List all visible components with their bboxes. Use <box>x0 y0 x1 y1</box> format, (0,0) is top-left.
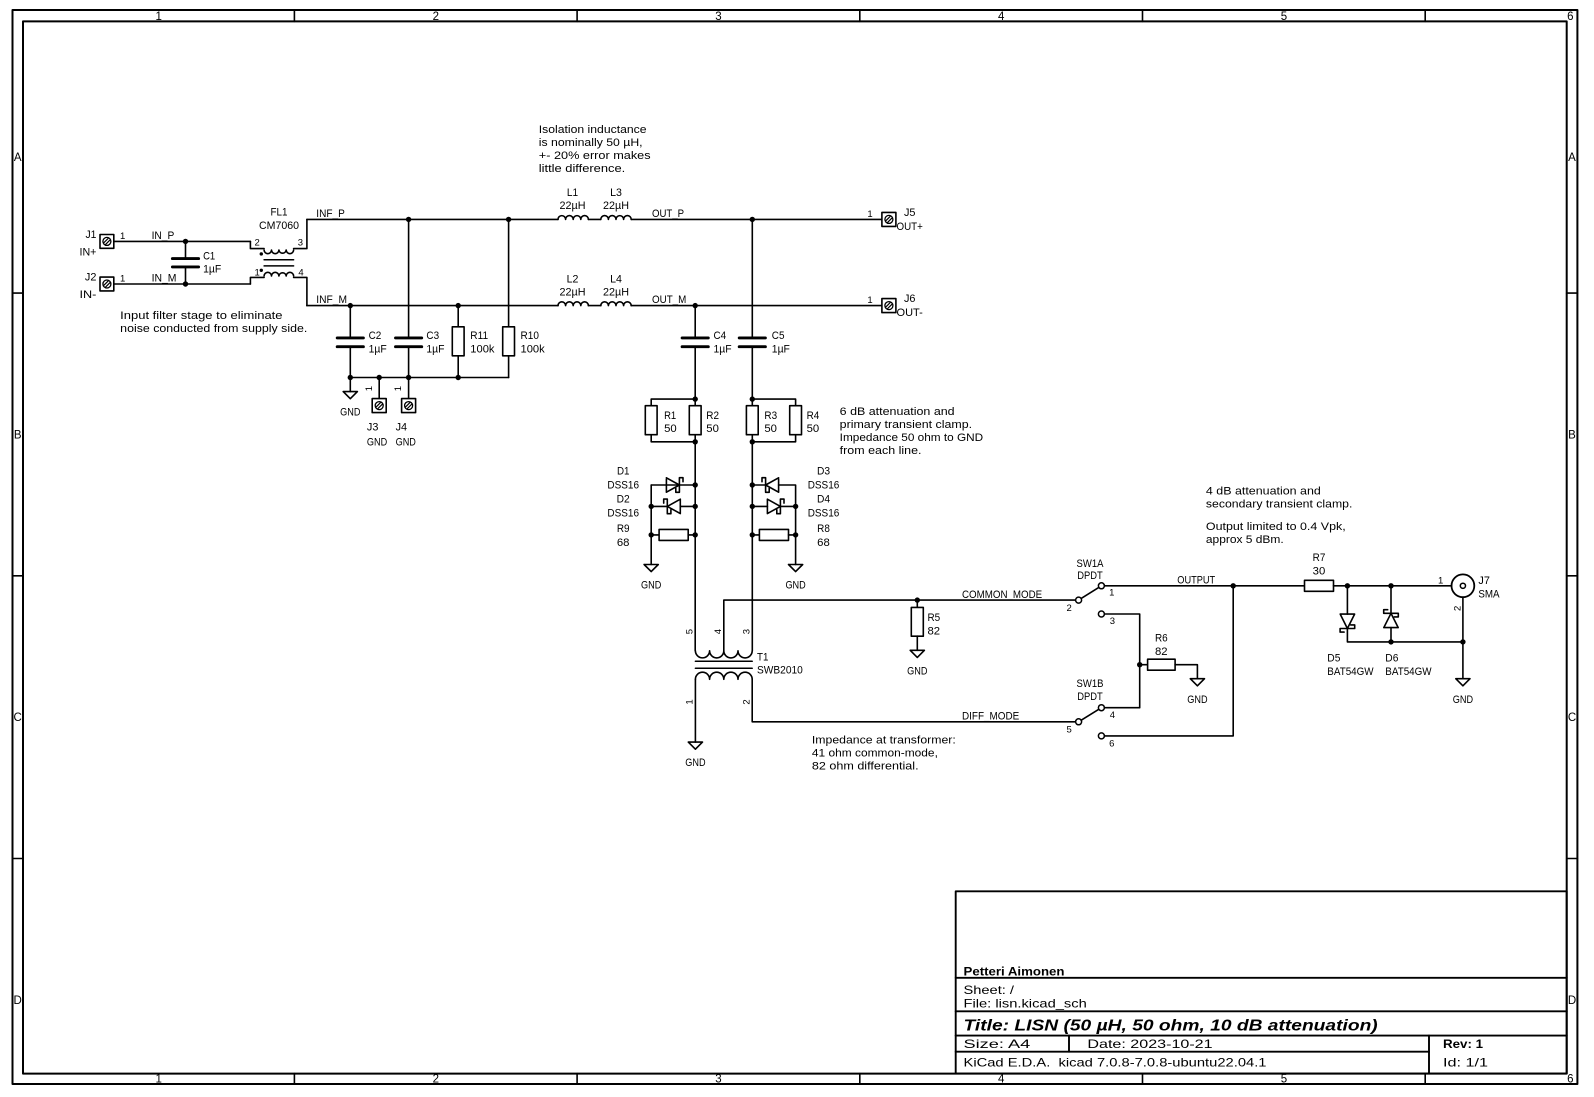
resistor R8 68 <box>752 529 795 540</box>
svg-text:Impedance 50 ohm to GND: Impedance 50 ohm to GND <box>840 432 984 444</box>
wire SW1A throw 1 to OUTPUT <box>1104 585 1304 587</box>
svg-text:1: 1 <box>255 267 260 278</box>
svg-text:BAT54GW: BAT54GW <box>1385 666 1432 678</box>
svg-text:IN-: IN- <box>80 289 97 301</box>
svg-text:Output limited to 0.4 Vpk,: Output limited to 0.4 Vpk, <box>1206 521 1346 533</box>
svg-text:DSS16: DSS16 <box>607 480 639 492</box>
svg-text:4: 4 <box>713 629 724 634</box>
svg-text:FL1: FL1 <box>271 206 288 218</box>
resistor R6 82 <box>1140 633 1198 679</box>
ground symbol under T1 <box>685 742 705 769</box>
transformer T1 SWB2010 <box>685 629 803 705</box>
svg-text:COMMON_MODE: COMMON_MODE <box>962 589 1042 601</box>
wire right clamp bus <box>751 442 753 651</box>
svg-text:OUT_P: OUT_P <box>652 208 684 220</box>
svg-text:50: 50 <box>706 423 719 435</box>
connector J6 OUT- <box>867 293 923 319</box>
svg-text:B: B <box>14 429 22 441</box>
junction OUT_P / C5 <box>750 217 755 222</box>
junction GND rail / C3 J4 <box>406 375 411 380</box>
note: input filter stage <box>120 310 307 335</box>
junction R6 / throws <box>1137 662 1142 667</box>
resistor R11 100k <box>452 306 495 378</box>
junction R3/R4 top <box>750 396 755 401</box>
svg-text:5: 5 <box>1281 1073 1287 1085</box>
svg-text:D5: D5 <box>1327 653 1340 665</box>
connector J5 OUT+ <box>867 207 922 233</box>
svg-text:1µF: 1µF <box>203 264 221 276</box>
svg-text:L4: L4 <box>610 274 622 286</box>
junction D3 cathode / bus <box>750 482 755 487</box>
svg-text:50: 50 <box>807 423 820 435</box>
svg-text:L2: L2 <box>567 274 579 286</box>
junction GND rail / C2 <box>348 375 353 380</box>
svg-text:C4: C4 <box>714 330 727 342</box>
svg-text:GND: GND <box>340 407 360 419</box>
svg-text:C: C <box>14 712 22 724</box>
resistor R3 50 <box>746 399 777 442</box>
labels D1 D2 R9 column <box>607 466 639 549</box>
net label COMMON_MODE <box>962 589 1042 601</box>
wire net OUT_P <box>631 218 882 220</box>
svg-text:4: 4 <box>998 11 1005 23</box>
svg-text:1: 1 <box>120 273 125 284</box>
diode D3 DSS16 <box>752 478 795 535</box>
svg-text:J2: J2 <box>85 272 97 284</box>
svg-text:GND: GND <box>641 580 661 592</box>
ground symbol under R5 <box>907 650 927 677</box>
inductor L1 22uH <box>558 187 588 219</box>
svg-text:noise conducted from supply si: noise conducted from supply side. <box>120 323 307 335</box>
svg-text:22µH: 22µH <box>603 200 629 212</box>
svg-text:22µH: 22µH <box>603 286 629 298</box>
svg-text:1: 1 <box>867 295 872 306</box>
svg-text:little difference.: little difference. <box>539 163 625 175</box>
resistor R1 50 <box>645 399 695 442</box>
wire SW1B throw 6 bypass to OUTPUT <box>1104 586 1233 736</box>
svg-text:3: 3 <box>298 238 303 249</box>
svg-text:GND: GND <box>396 436 416 448</box>
svg-text:Title: LISN (50 µH, 50 ohm, 10: Title: LISN (50 µH, 50 ohm, 10 dB attenu… <box>964 1018 1378 1035</box>
svg-text:5: 5 <box>1281 11 1287 23</box>
junction J7 pin 2 / ground rail <box>1460 639 1465 644</box>
svg-text:1µF: 1µF <box>714 343 732 355</box>
svg-text:R4: R4 <box>807 410 820 422</box>
svg-text:J4: J4 <box>396 421 408 433</box>
svg-text:1: 1 <box>364 386 375 391</box>
svg-text:D2: D2 <box>617 493 630 505</box>
svg-text:6: 6 <box>1567 1073 1573 1085</box>
resistor R4 50 <box>752 399 819 442</box>
svg-text:is nominally 50 µH,: is nominally 50 µH, <box>539 137 643 149</box>
capacitor C2 <box>337 306 387 378</box>
wire T1 pin 2 to DIFF_MODE <box>752 679 1075 722</box>
junction COMMON_MODE / R5 <box>915 597 920 602</box>
svg-text:82: 82 <box>928 625 941 637</box>
svg-text:4: 4 <box>298 267 303 278</box>
svg-text:C5: C5 <box>772 330 785 342</box>
title block texts <box>964 965 1489 1070</box>
svg-text:+- 20% error makes: +- 20% error makes <box>539 150 651 162</box>
svg-text:Sheet: /: Sheet: / <box>964 983 1015 997</box>
svg-text:D6: D6 <box>1385 653 1398 665</box>
resistor R2 50 <box>689 399 719 442</box>
svg-text:R8: R8 <box>817 523 830 535</box>
svg-text:3: 3 <box>715 1073 721 1085</box>
svg-text:File: lisn.kicad_sch: File: lisn.kicad_sch <box>964 997 1087 1011</box>
wire SW1B throw 4 to R6 <box>1104 665 1139 708</box>
wire J7 ground stub <box>1462 642 1464 679</box>
junction INF_P / R10 <box>506 217 511 222</box>
junction D6 / ground rail <box>1388 639 1393 644</box>
svg-text:J1: J1 <box>86 229 97 241</box>
wire IN_M from J2 to FL1 pin 1 <box>114 283 251 285</box>
svg-text:Date: 2023-10-21: Date: 2023-10-21 <box>1087 1037 1213 1051</box>
junction R3/R4 bottom <box>750 439 755 444</box>
inductor L3 22uH <box>601 187 631 219</box>
svg-text:D1: D1 <box>617 466 630 478</box>
svg-text:SW1A: SW1A <box>1077 558 1104 570</box>
title block outline <box>956 891 1567 1073</box>
junction R9 / bus <box>693 532 698 537</box>
inductor L2 22uH <box>558 274 588 306</box>
svg-text:primary transient clamp.: primary transient clamp. <box>840 419 972 431</box>
svg-text:A: A <box>14 152 22 164</box>
svg-text:82 ohm differential.: 82 ohm differential. <box>812 761 919 773</box>
svg-text:1µF: 1µF <box>772 343 790 355</box>
svg-text:D3: D3 <box>817 466 830 478</box>
inductor L4 22uH <box>601 274 631 306</box>
svg-text:50: 50 <box>664 423 677 435</box>
junction R9 / left branch <box>649 532 654 537</box>
note: 6 dB attenuation clamp <box>840 406 984 457</box>
svg-text:C2: C2 <box>369 330 382 342</box>
connector J4 GND <box>393 378 416 449</box>
svg-text:2: 2 <box>1067 603 1072 614</box>
svg-text:from each line.: from each line. <box>840 445 922 457</box>
svg-text:DSS16: DSS16 <box>808 507 840 519</box>
svg-text:3: 3 <box>1110 616 1115 627</box>
svg-text:1: 1 <box>155 1073 161 1085</box>
net label OUT_M <box>652 294 686 306</box>
junction INF_M / C2 <box>348 303 353 308</box>
junction D6 / OUTPUT wire <box>1388 583 1393 588</box>
svg-text:22µH: 22µH <box>560 200 586 212</box>
svg-text:R7: R7 <box>1313 552 1326 564</box>
svg-text:3: 3 <box>715 11 721 23</box>
svg-text:100k: 100k <box>521 343 546 355</box>
svg-text:INF_M: INF_M <box>316 294 347 306</box>
svg-text:4 dB attenuation and: 4 dB attenuation and <box>1206 486 1321 498</box>
svg-text:DSS16: DSS16 <box>808 480 840 492</box>
svg-text:C: C <box>1568 712 1576 724</box>
svg-text:GND: GND <box>1187 694 1207 706</box>
svg-text:J5: J5 <box>904 207 916 219</box>
resistor R10 100k <box>503 219 546 377</box>
diode D6 BAT54GW <box>1384 586 1432 678</box>
connector J1 IN+ <box>80 229 126 258</box>
connector J3 GND <box>364 378 387 449</box>
capacitor C5 <box>739 219 790 399</box>
svg-text:6: 6 <box>1109 739 1114 750</box>
junction GND rail / J3 <box>377 375 382 380</box>
svg-text:GND: GND <box>367 436 387 448</box>
junction R1/R2 top <box>693 396 698 401</box>
svg-text:SMA: SMA <box>1478 588 1500 600</box>
ground symbol under J7 <box>1453 679 1473 706</box>
svg-text:OUT+: OUT+ <box>897 221 923 233</box>
svg-text:Petteri Aimonen: Petteri Aimonen <box>964 965 1065 979</box>
wire between L1 and L3 <box>588 218 600 220</box>
net label INF_P <box>316 208 345 220</box>
wire T1 pin 1 to ground <box>694 679 696 742</box>
svg-text:B: B <box>1568 429 1576 441</box>
resistor R7 30 <box>1305 552 1452 591</box>
wire net INF_M <box>307 305 558 307</box>
svg-text:R3: R3 <box>764 410 777 422</box>
junction OUT_M / C4 <box>693 303 698 308</box>
svg-text:Isolation inductance: Isolation inductance <box>539 124 647 136</box>
svg-text:R10: R10 <box>521 330 539 342</box>
svg-text:OUTPUT: OUTPUT <box>1177 574 1215 586</box>
svg-text:DSS16: DSS16 <box>607 507 639 519</box>
svg-text:1: 1 <box>1109 588 1114 599</box>
svg-text:1µF: 1µF <box>426 343 444 355</box>
svg-text:22µH: 22µH <box>560 286 586 298</box>
svg-text:GND: GND <box>1453 694 1473 706</box>
diode D4 DSS16 <box>752 499 795 514</box>
junction D2 / left branch <box>649 504 654 509</box>
svg-text:Rev: 1: Rev: 1 <box>1443 1037 1483 1051</box>
svg-text:1: 1 <box>867 209 872 220</box>
svg-text:1: 1 <box>1438 575 1443 586</box>
svg-text:4: 4 <box>1110 710 1115 721</box>
svg-text:OUT-: OUT- <box>897 307 924 319</box>
capacitor C1 <box>172 241 221 284</box>
svg-text:DPDT: DPDT <box>1077 570 1103 582</box>
svg-text:Input filter stage to eliminat: Input filter stage to eliminate <box>120 310 282 322</box>
svg-text:C3: C3 <box>426 330 439 342</box>
svg-text:R1: R1 <box>664 410 676 422</box>
note: 4 dB attenuation clamp <box>1206 486 1353 547</box>
svg-text:IN_M: IN_M <box>152 273 177 285</box>
svg-text:R9: R9 <box>617 523 630 535</box>
svg-text:D4: D4 <box>817 493 830 505</box>
resistor R5 82 <box>911 600 940 650</box>
svg-text:2: 2 <box>433 11 439 23</box>
svg-text:C1: C1 <box>203 251 215 263</box>
junction INF_M / R11 <box>456 303 461 308</box>
svg-text:68: 68 <box>817 537 830 549</box>
svg-text:INF_P: INF_P <box>316 208 345 220</box>
svg-text:OUT_M: OUT_M <box>652 294 686 306</box>
svg-text:5: 5 <box>685 629 696 634</box>
svg-text:1: 1 <box>685 699 696 704</box>
wire net OUT_M <box>631 305 882 307</box>
ground symbol GND at input filter <box>340 378 360 419</box>
wire between L2 and L4 <box>588 305 600 307</box>
diode D1 DSS16 <box>651 478 695 535</box>
svg-text:KiCad E.D.A. kicad 7.0.8-7.0.: KiCad E.D.A. kicad 7.0.8-7.0.8-ubuntu22.… <box>964 1056 1267 1070</box>
svg-text:2: 2 <box>255 238 260 249</box>
svg-text:82: 82 <box>1155 646 1168 658</box>
common-mode choke FL1 CM7060 <box>250 206 307 305</box>
wire T1 pin 4 to COMMON_MODE <box>724 600 1076 651</box>
junction INF_P / C3 <box>406 217 411 222</box>
svg-text:Size: A4: Size: A4 <box>964 1037 1031 1051</box>
junction IN_M / C1 <box>183 281 188 286</box>
junction R8 / right branch <box>793 532 798 537</box>
svg-text:41 ohm common-mode,: 41 ohm common-mode, <box>812 748 938 760</box>
net label OUT_P <box>652 208 684 220</box>
svg-text:2: 2 <box>1452 606 1463 611</box>
svg-text:GND: GND <box>685 757 705 769</box>
svg-text:50: 50 <box>764 423 777 435</box>
svg-text:DIFF_MODE: DIFF_MODE <box>962 711 1019 723</box>
svg-text:DPDT: DPDT <box>1077 691 1103 703</box>
svg-text:L3: L3 <box>610 187 622 199</box>
svg-text:D: D <box>14 995 22 1007</box>
svg-text:100k: 100k <box>470 343 495 355</box>
svg-text:2: 2 <box>742 699 753 704</box>
svg-text:1µF: 1µF <box>369 343 387 355</box>
svg-text:D: D <box>1568 995 1576 1007</box>
net label OUTPUT <box>1177 574 1215 586</box>
wire GND rail under C2 C3 R11 R10 <box>350 377 508 379</box>
svg-text:BAT54GW: BAT54GW <box>1327 666 1374 678</box>
svg-text:SW1B: SW1B <box>1077 678 1104 690</box>
labels D3 D4 R8 column <box>808 466 840 549</box>
junction GND rail / R11 <box>456 375 461 380</box>
switch SW1A DPDT <box>1067 558 1115 627</box>
svg-text:L1: L1 <box>567 187 578 199</box>
junction IN_P / C1 <box>183 239 188 244</box>
connector J7 SMA <box>1438 574 1500 642</box>
ground symbol under D3 D4 R8 <box>785 535 805 592</box>
svg-text:1: 1 <box>393 386 404 391</box>
ground symbol under R6 <box>1187 679 1207 706</box>
svg-text:T1: T1 <box>757 652 768 664</box>
svg-text:J7: J7 <box>1478 575 1490 587</box>
svg-text:secondary transient clamp.: secondary transient clamp. <box>1206 499 1353 511</box>
junction R1/R2 bottom <box>693 439 698 444</box>
svg-text:6: 6 <box>1567 11 1573 23</box>
svg-text:SWB2010: SWB2010 <box>757 665 803 677</box>
junction D5 / OUTPUT wire <box>1345 583 1350 588</box>
resistor R9 68 <box>651 529 695 540</box>
net label IN_P <box>152 230 175 242</box>
net label IN_M <box>152 273 177 285</box>
svg-text:GND: GND <box>907 665 927 677</box>
svg-text:R6: R6 <box>1155 633 1168 645</box>
svg-text:6 dB attenuation and: 6 dB attenuation and <box>840 406 955 418</box>
svg-text:IN_P: IN_P <box>152 230 175 242</box>
svg-text:R5: R5 <box>928 612 941 624</box>
svg-text:R11: R11 <box>470 330 488 342</box>
junction D4 / right branch <box>793 504 798 509</box>
wire SW1A throw 3 to R6 <box>1104 614 1139 665</box>
svg-text:68: 68 <box>617 537 630 549</box>
svg-text:Id: 1/1: Id: 1/1 <box>1443 1056 1488 1070</box>
capacitor C3 <box>396 219 445 377</box>
net label DIFF_MODE <box>962 711 1019 723</box>
svg-text:J6: J6 <box>904 293 916 305</box>
wire net INF_P <box>307 218 558 220</box>
svg-text:4: 4 <box>998 1073 1005 1085</box>
connector J2 IN- <box>80 272 126 301</box>
junction D2 / bus <box>693 504 698 509</box>
svg-text:3: 3 <box>742 629 753 634</box>
svg-text:R2: R2 <box>706 410 719 422</box>
svg-text:1: 1 <box>155 11 161 23</box>
junction R8 / bus <box>750 532 755 537</box>
svg-text:A: A <box>1568 152 1576 164</box>
svg-text:GND: GND <box>785 580 805 592</box>
svg-text:Impedance at transformer:: Impedance at transformer: <box>812 735 956 747</box>
svg-text:CM7060: CM7060 <box>259 220 299 232</box>
wire left clamp bus <box>694 442 696 651</box>
svg-text:approx 5 dBm.: approx 5 dBm. <box>1206 534 1284 546</box>
svg-text:J3: J3 <box>367 421 379 433</box>
note: impedance at transformer <box>812 735 956 773</box>
wire IN_P from J1 to FL1 pin 2 <box>114 240 251 242</box>
svg-text:1: 1 <box>120 231 125 242</box>
net label INF_M <box>316 294 347 306</box>
svg-text:IN+: IN+ <box>80 246 97 258</box>
svg-text:5: 5 <box>1067 725 1072 736</box>
capacitor C4 <box>682 306 732 400</box>
junction OUTPUT / bypass <box>1231 583 1236 588</box>
junction D1 cathode / bus <box>693 482 698 487</box>
diode D5 BAT54GW <box>1327 586 1463 678</box>
diode D2 DSS16 <box>651 499 695 514</box>
note: isolation inductance <box>539 124 651 175</box>
ground symbol under D1 D2 R9 <box>641 535 661 592</box>
switch SW1B DPDT <box>1067 678 1115 750</box>
junction D4 / bus <box>750 504 755 509</box>
svg-text:2: 2 <box>433 1073 439 1085</box>
svg-text:30: 30 <box>1313 565 1326 577</box>
